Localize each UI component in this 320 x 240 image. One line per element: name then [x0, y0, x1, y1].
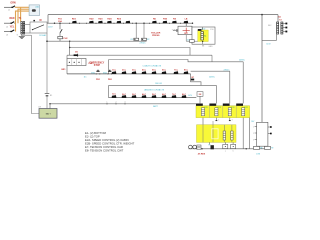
svg-text:B1: B1	[50, 95, 52, 97]
wire regulator bottom drop	[186, 35, 189, 42]
component box mid a	[223, 144, 228, 148]
wire T1 secondary bottom	[25, 32, 30, 34]
svg-text:E2B- SPEED CONTROL CTR. WEIGHT: E2B- SPEED CONTROL CTR. WEIGHT	[85, 142, 135, 146]
battery box	[39, 109, 57, 119]
svg-text:BATT: BATT	[153, 105, 159, 108]
resistor R1 body	[134, 38, 139, 40]
transformer T2	[277, 22, 283, 34]
svg-text:LANDING CONTACTS: LANDING CONTACTS	[144, 89, 165, 92]
svg-text:24VDC: 24VDC	[239, 59, 246, 61]
rail C wire	[67, 54, 212, 56]
svg-text:RED: RED	[9, 17, 14, 20]
svg-text:7LC: 7LC	[172, 94, 176, 96]
terminal blob on contactor top	[33, 20, 35, 21]
strip feed resistor a	[258, 145, 260, 147]
wire T2 primary bottom	[276, 34, 278, 40]
relay 1 bottom stub	[202, 118, 204, 125]
relay cap 3	[223, 104, 230, 106]
wire BR1 to row A bus	[66, 66, 68, 74]
contactor M blade	[33, 25, 45, 30]
rail D wire	[109, 60, 244, 62]
legend text block	[85, 131, 135, 153]
svg-text:RD: RD	[153, 18, 157, 20]
block to bottom stubs	[209, 142, 233, 144]
svg-text:F2: F2	[209, 145, 211, 147]
relay 3 bottom stub	[229, 118, 231, 121]
svg-text:2LC: 2LC	[122, 94, 126, 96]
svg-text:4LC: 4LC	[142, 93, 146, 96]
svg-text:3LC: 3LC	[132, 94, 136, 96]
long riser wire x262	[261, 15, 263, 123]
motor terminal circle b	[193, 145, 197, 149]
ground symbol	[19, 36, 25, 38]
wire rail C end drop	[211, 55, 213, 62]
resistor drop R1 from bus	[135, 23, 137, 38]
mid rail wire	[109, 84, 217, 86]
component box mid b	[231, 144, 236, 148]
svg-text:1: 1	[107, 101, 108, 103]
resistor R2 body	[142, 38, 147, 40]
coil box at row B end	[197, 92, 203, 97]
fuse FU2 body	[58, 36, 63, 38]
contact row on AC bus	[69, 17, 188, 23]
svg-text:6LC: 6LC	[162, 94, 166, 96]
svg-text:R9: R9	[271, 147, 273, 149]
relay coil 3	[228, 108, 231, 116]
resistor drop R2 from bus	[143, 23, 145, 38]
svg-text:8LC: 8LC	[182, 94, 186, 96]
svg-text:R1: R1	[131, 39, 133, 41]
wire T1 bottom lead	[21, 34, 23, 36]
contactor M box	[30, 22, 47, 33]
yellow highlight contactor cell	[198, 30, 208, 42]
svg-text:A1: A1	[204, 35, 206, 38]
svg-text:DN LIM: DN LIM	[155, 83, 162, 85]
lower yellow block	[197, 125, 237, 143]
svg-text:E2- (2) TOP: E2- (2) TOP	[85, 135, 100, 139]
wire L2 phase input	[4, 22, 11, 24]
wire yellow cell bottom	[202, 42, 204, 45]
svg-text:GND: GND	[209, 46, 214, 48]
coach contact bank	[112, 71, 189, 74]
svg-text:E1- (2) BOTTOM: E1- (2) BOTTOM	[85, 131, 107, 135]
relay row dividers	[209, 106, 236, 118]
switch on FU2 drop	[60, 29, 62, 33]
wire mid rail to row B	[108, 85, 110, 97]
wire yellow cell top	[202, 27, 204, 30]
wire cap2 feed	[215, 85, 217, 103]
yellow relay row	[196, 106, 250, 118]
AC bus wire	[47, 22, 193, 24]
push button PB1	[96, 70, 99, 72]
strip right pins	[268, 126, 272, 134]
rectifier box BR1	[67, 59, 86, 66]
svg-text:LB: LB	[185, 18, 188, 20]
svg-text:F.B: F.B	[173, 18, 177, 20]
svg-text:24VDC: 24VDC	[140, 42, 147, 44]
svg-text:115VAC: 115VAC	[39, 34, 47, 37]
svg-text:ES1: ES1	[91, 72, 95, 74]
relay cap 2	[209, 104, 216, 106]
wire T2 return	[262, 39, 277, 41]
regulator red cross	[185, 28, 187, 34]
coil element in yellow	[201, 32, 203, 41]
wire top bus into T2	[277, 15, 279, 22]
push button PB2	[108, 70, 111, 72]
row right edge wire down	[249, 118, 251, 149]
svg-text:5LC: 5LC	[152, 94, 156, 96]
svg-text:24VDC: 24VDC	[209, 76, 216, 78]
svg-text:115: 115	[187, 39, 190, 41]
wire left riser to battery box	[32, 35, 40, 113]
strip left pins	[255, 127, 257, 140]
svg-text:R8: R8	[260, 147, 262, 149]
wire row A end corner	[191, 74, 201, 86]
strip feed resistor b	[265, 146, 271, 149]
svg-text:1LC: 1LC	[112, 94, 116, 96]
wire cap to regulator box	[177, 30, 179, 32]
wire FU2 to rail A	[59, 39, 61, 41]
wire right riser lower	[46, 96, 48, 109]
svg-text:2: 2	[116, 101, 117, 103]
SCR red labels	[72, 17, 188, 20]
battery bus ticks	[107, 103, 125, 105]
svg-text:F5B: F5B	[163, 18, 167, 20]
wire cap3 feed	[229, 71, 231, 103]
node top bus left	[47, 15, 49, 24]
svg-text:COACH CONTACTS: COACH CONTACTS	[142, 65, 161, 68]
svg-text:F10: F10	[210, 29, 213, 31]
svg-text:3: 3	[125, 101, 126, 103]
wire T1 secondary top to contactor	[25, 24, 30, 26]
CB1 element	[32, 9, 36, 12]
relay 2 bottom stub	[215, 118, 217, 121]
terminal strip box	[257, 122, 268, 146]
svg-text:a: a	[225, 151, 226, 153]
svg-text:115: 115	[84, 77, 87, 79]
wire resistor to yellow bottom	[194, 40, 198, 42]
svg-text:STOP: STOP	[94, 65, 101, 67]
landing contact red labels	[112, 93, 186, 96]
SCR contact bank	[72, 21, 188, 24]
wire L3 phase input	[4, 31, 11, 33]
wire L1 phase input	[4, 6, 12, 8]
wire cap3 feed upper	[191, 70, 230, 72]
svg-text:30A: 30A	[58, 20, 62, 23]
relay coil 1	[201, 108, 204, 116]
svg-text:GRN: GRN	[10, 2, 16, 5]
wire right riser upper	[46, 33, 48, 93]
svg-text:R2: R2	[147, 39, 149, 41]
svg-text:EMERGENCY: EMERGENCY	[89, 62, 104, 64]
svg-text:E2A- SPEED CONTROL (2) CABIN: E2A- SPEED CONTROL (2) CABIN	[85, 138, 129, 142]
svg-text:115V: 115V	[48, 27, 53, 29]
diode D5 on rail C	[74, 54, 78, 56]
svg-text:COM: COM	[256, 154, 261, 156]
wire rail D to row A	[108, 60, 110, 74]
svg-text:E8- TENSION CONTROL CWT: E8- TENSION CONTROL CWT	[85, 149, 124, 153]
transformer T1	[21, 22, 25, 34]
relay coil 4	[242, 108, 245, 116]
battery bus wire	[50, 103, 196, 105]
drive enclosure box	[192, 27, 215, 44]
svg-text:b: b	[233, 151, 234, 153]
circuit breaker CB1 box	[29, 5, 39, 16]
landing contact bank	[112, 95, 187, 98]
fuse FU2 drop from bus	[59, 23, 61, 29]
coach contact red labels	[112, 69, 189, 72]
battery cell symbol	[45, 93, 50, 95]
switch on L3	[11, 30, 14, 32]
terminal box left	[197, 145, 201, 149]
motor terminal circle a	[189, 145, 193, 149]
svg-text:ES2: ES2	[103, 72, 107, 74]
block inner sub box	[212, 129, 218, 139]
svg-text:4X RES: 4X RES	[198, 152, 206, 155]
node bus end dot	[192, 23, 193, 24]
resistor in drive box	[190, 40, 195, 43]
relay K black box	[191, 79, 194, 81]
rail A wire	[47, 40, 147, 42]
svg-text:M: M	[40, 19, 42, 22]
svg-text:24VDC: 24VDC	[223, 70, 230, 72]
switch on L2	[11, 22, 14, 24]
relay cap 1	[196, 104, 203, 106]
block internal wires	[203, 125, 232, 143]
wire cap4 feed	[242, 62, 244, 104]
relay cap 4	[236, 104, 243, 106]
block coil b	[231, 131, 233, 140]
bottom bus wire	[189, 148, 268, 150]
row A bus wire	[67, 73, 191, 75]
svg-text:2: 2	[218, 119, 219, 121]
switch on L1	[12, 6, 15, 8]
rail B wire	[70, 48, 190, 56]
orange wire to T1 primary	[20, 7, 22, 21]
svg-text:PRESS: PRESS	[152, 35, 160, 37]
dark component on bus	[211, 145, 214, 149]
svg-text:E7- TENSION CONTROL CAR: E7- TENSION CONTROL CAR	[85, 145, 123, 149]
block coil a	[223, 131, 225, 140]
regulator box U1	[178, 26, 192, 35]
row B bus wire	[109, 97, 197, 99]
T2 secondary taps	[283, 23, 287, 33]
orange wire phase B	[18, 9, 29, 23]
wire ground tie to left riser	[22, 34, 32, 36]
wire coil box to cap1	[199, 96, 201, 103]
relay coil 2	[215, 108, 218, 116]
wire bus into battery box	[49, 104, 51, 109]
svg-text:3: 3	[232, 119, 233, 121]
orange wire phase A	[15, 6, 29, 8]
wire rail C into BR1	[66, 55, 68, 58]
SCR pin dots	[69, 23, 181, 24]
top bus wire	[48, 14, 278, 16]
wire rails A-C tie	[69, 41, 71, 55]
capacitor C1	[173, 30, 176, 32]
orange wire phase C	[16, 11, 30, 31]
relay 4 bottom wire to bus	[242, 118, 244, 149]
svg-text:115V: 115V	[266, 43, 271, 45]
svg-text:FLD: FLD	[202, 28, 206, 30]
node junction at x262	[261, 14, 263, 16]
black cap on yellow cell	[198, 29, 202, 31]
svg-text:BATT: BATT	[46, 112, 52, 115]
wire bus into regulator	[185, 23, 187, 26]
svg-text:M3: M3	[202, 46, 204, 48]
svg-text:YEL: YEL	[10, 26, 15, 29]
wire switch to FU2	[59, 33, 61, 37]
